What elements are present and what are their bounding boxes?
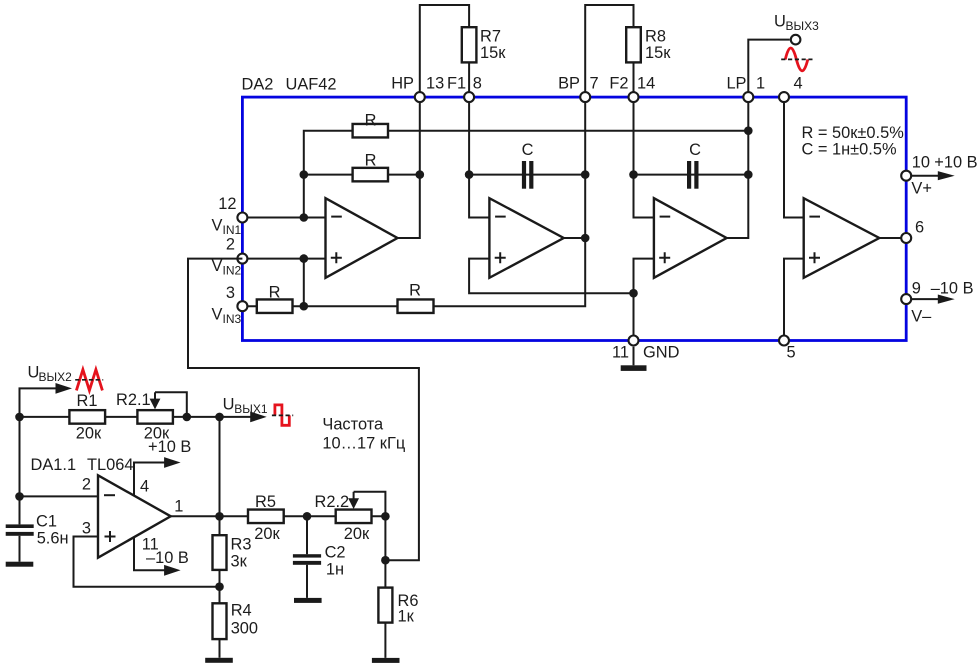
wire: op4 output to pin6 — [879, 237, 906, 239]
svg-text:V–: V– — [911, 307, 932, 325]
svg-text:2: 2 — [82, 475, 91, 493]
capacitor C (op3 integrator) — [687, 161, 691, 189]
wire: row2 R from summing node to HP column — [304, 174, 420, 176]
junction R3 R4 feedback — [215, 582, 224, 591]
wire: F1 column pin8 to op2 inverting input — [469, 97, 489, 217]
pin 12 Vin1 — [237, 213, 247, 223]
svg-text:V: V — [212, 305, 223, 323]
pin LP 1 — [743, 92, 753, 102]
pin 3 Vin3 — [237, 301, 247, 311]
svg-text:15к: 15к — [480, 44, 506, 62]
ground R6 — [372, 658, 400, 663]
junction ground row / pin11 column — [629, 289, 638, 298]
ground symbol pin11 — [633, 347, 635, 366]
resistor R row1 — [353, 124, 388, 138]
wire: pin2 to op1 noninverting input — [242, 258, 325, 260]
wire: op2 noninverting to ground row — [469, 259, 633, 294]
svg-text:R8: R8 — [645, 28, 666, 46]
svg-text:4: 4 — [140, 478, 149, 496]
pin 5 — [779, 336, 789, 346]
svg-text:IN3: IN3 — [223, 312, 242, 326]
svg-text:8: 8 — [473, 75, 482, 93]
junction node Uout2 / R1 — [15, 413, 24, 422]
svg-text:DA2: DA2 — [242, 76, 274, 94]
wire: Uout2 node row R1 R2.1 — [20, 416, 220, 418]
resistor R4 — [213, 603, 227, 639]
svg-text:R2.1: R2.1 — [116, 391, 151, 409]
junction summing node / inverting input — [300, 213, 309, 222]
pin 2 Vin2 — [237, 254, 247, 264]
junction R6 top / filter input feed — [381, 556, 390, 565]
svg-text:–10 В: –10 В — [146, 549, 189, 567]
svg-text:R5: R5 — [255, 493, 276, 511]
wire: pin3 bottom R row to BP column — [242, 97, 585, 306]
wire: op4 noninverting to pin5 — [784, 259, 804, 341]
resistor R5 — [248, 510, 284, 524]
wire: R3 R4 column — [219, 516, 221, 658]
svg-text:HP: HP — [391, 75, 414, 93]
op-amp DA1.1 — [98, 475, 171, 557]
svg-text:R4: R4 — [231, 602, 252, 620]
waveform square — [275, 405, 289, 425]
svg-text:U: U — [223, 396, 235, 414]
wire: op1 plus node down to bottom R row — [303, 259, 305, 307]
pin BP 7 — [580, 92, 590, 102]
ground C2 — [294, 598, 322, 603]
junction plus node / Vin3 R row — [300, 302, 309, 311]
svg-text:BP: BP — [558, 75, 580, 93]
svg-text:3: 3 — [226, 284, 235, 302]
svg-text:F2: F2 — [609, 75, 628, 93]
resistor R row2 — [353, 168, 388, 182]
pin 6 — [901, 233, 911, 243]
wire: bracket pin7 to R8 to pin14 — [585, 5, 633, 97]
wire: op3 output to LP column pin1 — [727, 97, 749, 238]
svg-text:+10 В: +10 В — [148, 438, 191, 456]
capacitor C2 — [293, 554, 321, 557]
ground R4 — [205, 658, 233, 663]
svg-text:DA1.1: DA1.1 — [31, 456, 77, 474]
svg-text:V+: V+ — [911, 179, 932, 197]
svg-text:R3: R3 — [231, 535, 252, 553]
wire: Uout2 arrow riser — [20, 388, 59, 417]
pin 11 GND — [629, 336, 639, 346]
wire: op3 noninverting to ground row and pin11 — [634, 259, 654, 341]
wire: HP column pin13 down to op1 output — [398, 97, 420, 238]
wire: C2 column — [306, 516, 308, 598]
svg-text:20к: 20к — [254, 525, 280, 543]
svg-text:R2.2: R2.2 — [315, 493, 350, 511]
power pin 4 arrow +10V — [134, 463, 166, 496]
svg-text:V: V — [212, 257, 223, 275]
wire: op2 output to BP column — [564, 237, 586, 239]
junction R5 / C2 — [303, 512, 312, 521]
junction C1 / inverting input — [15, 492, 24, 501]
svg-text:11: 11 — [612, 344, 629, 362]
svg-text:3к: 3к — [231, 553, 248, 571]
pin 4 — [779, 92, 789, 102]
svg-text:TL064: TL064 — [87, 456, 133, 474]
svg-text:7: 7 — [590, 75, 599, 93]
wire: Vin2 feed from R2.2/R6 junction — [188, 259, 419, 561]
svg-text:6: 6 — [915, 219, 924, 237]
junction summing node / R row2 — [300, 170, 309, 179]
svg-text:14: 14 — [637, 75, 655, 93]
svg-text:R: R — [365, 112, 377, 130]
junction F2 column / C row — [629, 170, 638, 179]
junction HP column / R row2 — [416, 170, 425, 179]
svg-text:5.6н: 5.6н — [37, 530, 69, 548]
wire: bracket pin13 to R7 to pin8 — [420, 5, 469, 97]
svg-text:1: 1 — [174, 498, 183, 516]
svg-text:C2: C2 — [325, 544, 346, 562]
resistor R8 — [626, 27, 641, 62]
svg-text:ВЫХ1: ВЫХ1 — [234, 402, 268, 416]
wire: pin1 up to Uout3 terminal — [748, 40, 790, 98]
svg-text:12: 12 — [218, 195, 236, 213]
potentiometer R2.1 — [137, 410, 173, 424]
svg-text:4: 4 — [794, 75, 803, 93]
resistor R1 — [69, 410, 105, 424]
resistor R bottom-right — [398, 299, 434, 313]
wire: output node up to Uout1 — [219, 417, 221, 516]
wire: R6 column — [384, 516, 386, 658]
pin F2 14 — [629, 92, 639, 102]
svg-text:15к: 15к — [645, 44, 671, 62]
svg-text:R: R — [409, 282, 421, 300]
svg-text:13: 13 — [426, 75, 444, 93]
resistor R6 — [378, 588, 392, 623]
terminal Uout1 arrow — [220, 416, 253, 418]
svg-text:R: R — [365, 152, 377, 170]
svg-text:R7: R7 — [480, 28, 501, 46]
svg-text:GND: GND — [643, 344, 680, 362]
svg-text:+10 В: +10 В — [934, 154, 977, 172]
svg-text:2: 2 — [226, 236, 235, 254]
svg-text:U: U — [774, 13, 786, 31]
ground C1 — [19, 536, 21, 562]
svg-text:5: 5 — [787, 344, 796, 362]
junction LP column / C row — [744, 170, 753, 179]
power pin 11 arrow -10V — [134, 537, 166, 570]
op-amp A4 (buffer) — [804, 198, 880, 278]
op-amp A1 (summing) — [326, 198, 398, 278]
wire: HP node row1 feedback R to LP column — [304, 131, 749, 218]
svg-text:10: 10 — [912, 154, 930, 172]
pin F1 8 — [464, 92, 474, 102]
waveform sine — [785, 48, 808, 71]
junction R2.1 wiper / output — [183, 413, 192, 422]
junction op output / R3 — [215, 512, 224, 521]
svg-text:10…17 кГц: 10…17 кГц — [322, 435, 405, 453]
pin 9 V- — [906, 298, 939, 300]
svg-text:C = 1н±0.5%: C = 1н±0.5% — [802, 141, 897, 159]
svg-text:LP: LP — [726, 75, 746, 93]
wiper R2.2 — [354, 492, 386, 517]
svg-text:Частота: Частота — [322, 416, 384, 434]
svg-text:R1: R1 — [77, 392, 98, 410]
svg-text:3: 3 — [82, 520, 91, 538]
svg-text:F1: F1 — [447, 75, 466, 93]
svg-text:IN2: IN2 — [223, 264, 242, 278]
svg-text:UAF42: UAF42 — [286, 76, 337, 94]
svg-text:R: R — [269, 284, 281, 302]
junction plus node / Vin2 row — [300, 254, 309, 263]
junction F1 column / C row — [465, 170, 474, 179]
svg-text:ВЫХ3: ВЫХ3 — [786, 19, 820, 33]
IC DA2 UAF42 outline (blue box) — [242, 97, 906, 340]
terminal Uout3 — [791, 35, 801, 45]
junction R2.2 wiper / R6 — [381, 512, 390, 521]
svg-text:C: C — [522, 141, 534, 159]
svg-text:–10 В: –10 В — [931, 280, 974, 298]
pin 10 V+ — [906, 175, 939, 177]
capacitor C (op2 integrator) — [522, 161, 526, 189]
svg-text:V: V — [212, 217, 223, 235]
svg-text:20к: 20к — [76, 424, 102, 442]
svg-text:1к: 1к — [398, 608, 415, 626]
junction LP column / row1 R — [744, 126, 753, 135]
op-amp A2 (integrator 1) — [489, 198, 563, 278]
junction node Uout1 — [215, 413, 224, 422]
svg-text:1н: 1н — [326, 561, 344, 579]
wire: pin12 to op1 inverting input — [242, 217, 325, 219]
svg-text:C: C — [689, 141, 701, 159]
wire: F2 column pin14 to op3 inverting input — [634, 97, 654, 217]
resistor R bottom-left — [257, 299, 293, 313]
wire: plus input feedback loop — [74, 537, 220, 587]
wire: C row op3 — [634, 174, 749, 176]
wire: pin4 to op4 inverting input — [784, 97, 804, 217]
wire: node column to C1 and op1 minus — [20, 417, 99, 525]
op-amp A3 (integrator 2) — [654, 198, 727, 278]
svg-text:1: 1 — [756, 75, 765, 93]
resistor R7 — [462, 27, 477, 62]
junction BP column / C row — [581, 170, 590, 179]
junction BP column / op2 output — [581, 234, 590, 243]
svg-text:300: 300 — [231, 620, 258, 638]
wiper R2.1 — [155, 392, 187, 417]
pin HP 13 — [415, 92, 425, 102]
wire: op1 output row — [171, 515, 386, 517]
resistor R3 — [213, 535, 227, 570]
wire: C row op2 — [469, 174, 585, 176]
potentiometer R2.2 — [336, 510, 372, 524]
svg-text:R = 50к±0.5%: R = 50к±0.5% — [802, 124, 904, 142]
svg-text:9: 9 — [912, 280, 921, 298]
waveform triangle — [76, 370, 102, 391]
svg-text:ВЫХ2: ВЫХ2 — [39, 370, 73, 384]
svg-text:C1: C1 — [36, 512, 57, 530]
capacitor C1 — [6, 524, 34, 528]
svg-text:20к: 20к — [344, 525, 370, 543]
